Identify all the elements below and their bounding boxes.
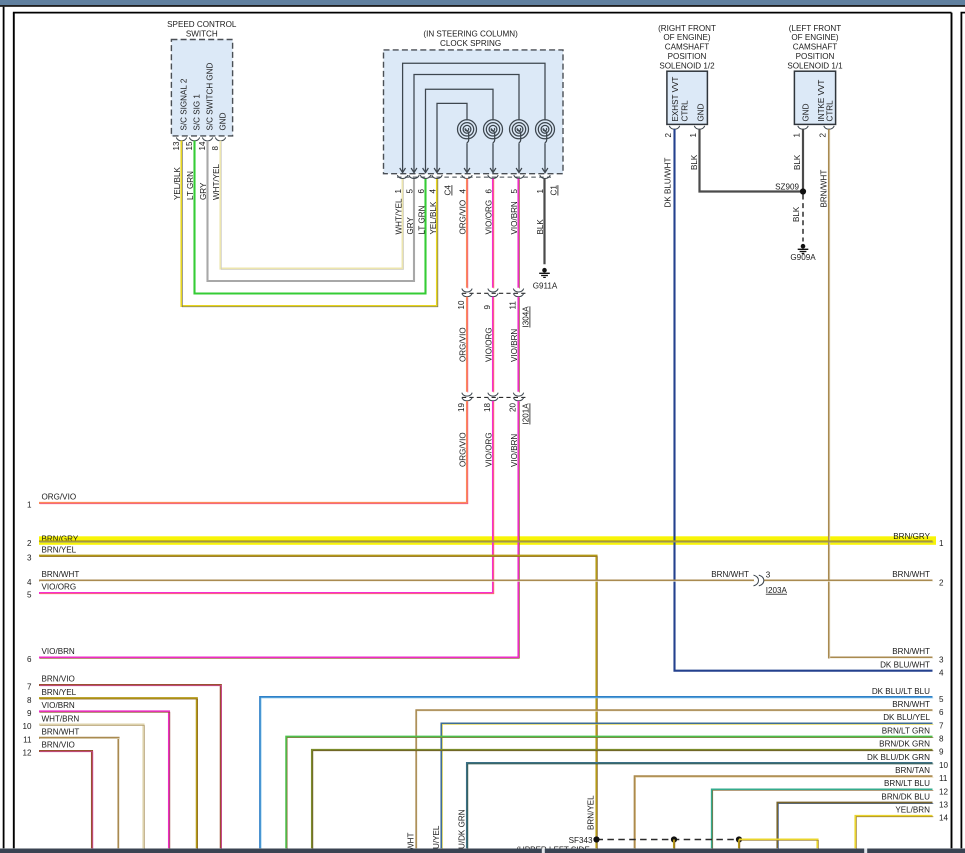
right row 13 number xyxy=(939,801,949,810)
svg-text:C1: C1 xyxy=(550,185,559,196)
switch pin connector cups xyxy=(176,137,225,140)
label BRN/GRY right end xyxy=(893,532,930,541)
right row 4 number xyxy=(939,669,944,678)
I304A pin 10 xyxy=(457,300,466,310)
left row 6 label VIO/BRN xyxy=(42,647,75,656)
svg-text:8: 8 xyxy=(211,146,220,151)
splice SF343 dashed bus xyxy=(597,839,740,841)
wire VIO/ORG mid segment xyxy=(492,297,495,393)
svg-text:BRN/WHT: BRN/WHT xyxy=(711,570,749,579)
clock spring pin arrows xyxy=(400,168,548,173)
svg-text:4: 4 xyxy=(939,669,944,678)
svg-text:6: 6 xyxy=(484,189,493,194)
label BRN/WHT before I203A xyxy=(711,570,749,579)
svg-text:7: 7 xyxy=(939,721,944,730)
label VIO/ORG mid xyxy=(485,327,494,362)
svg-text:I203A: I203A xyxy=(766,586,788,595)
speed control switch box xyxy=(171,40,232,136)
svg-text:CTRL: CTRL xyxy=(826,100,835,122)
switch pin label S/C SIG 1 xyxy=(193,94,202,131)
svg-text:WHT/YEL: WHT/YEL xyxy=(394,198,403,234)
right row 10 label DK BLU/DK GRN xyxy=(867,753,930,762)
solenoid 1/1 pin 2 xyxy=(819,133,828,138)
label YEL/BLK xyxy=(173,167,182,200)
wire right row 7 DK BLU/YEL xyxy=(442,724,934,850)
svg-text:YEL/BLK: YEL/BLK xyxy=(429,201,438,234)
wire DK BLU/WHT solenoid 1/2 to row 4 xyxy=(675,129,933,671)
svg-text:7: 7 xyxy=(27,683,32,692)
left outer frame line xyxy=(3,7,5,849)
right row 12 label BRN/LT BLU xyxy=(884,779,930,788)
wire right row 5 DK BLU/LT BLU xyxy=(260,697,933,849)
left row 6 number xyxy=(27,655,32,664)
svg-text:C4: C4 xyxy=(444,185,453,196)
wire right row 12 BRN/LT BLU xyxy=(712,790,933,850)
wire GRY switch pin14 to C4 pin5 xyxy=(208,141,415,281)
wire left row 7 to bottom xyxy=(39,685,222,849)
svg-text:2: 2 xyxy=(27,539,32,548)
svg-text:VIO/ORG: VIO/ORG xyxy=(485,200,494,235)
svg-text:10: 10 xyxy=(22,722,32,731)
right row 7 label DK BLU/YEL xyxy=(883,713,930,722)
label BLK solenoid 1/2 xyxy=(690,154,699,170)
wire right row 6 BRN/WHT xyxy=(416,710,933,849)
svg-text:OF ENGINE): OF ENGINE) xyxy=(663,33,711,42)
svg-text:2: 2 xyxy=(819,133,828,138)
wire left row 12 to bottom xyxy=(39,751,93,849)
svg-text:ORG/VIO: ORG/VIO xyxy=(459,327,468,362)
svg-text:SOLENOID 1/2: SOLENOID 1/2 xyxy=(659,61,715,70)
wire BRN/GRY row2 full width xyxy=(39,540,933,543)
svg-text:BRN/WHT: BRN/WHT xyxy=(42,728,80,737)
wire VIO/ORG C1 pin6 upper segment xyxy=(492,179,495,289)
solenoid 1/2 connector cups xyxy=(669,126,704,129)
svg-text:8: 8 xyxy=(939,735,944,744)
svg-text:4: 4 xyxy=(27,578,32,587)
right row 9 number xyxy=(939,748,944,757)
svg-text:S/C SIG 1: S/C SIG 1 xyxy=(193,94,202,131)
svg-text:WHT: WHT xyxy=(407,833,416,851)
wire VIO/BRN C1 pin5 upper segment xyxy=(517,179,520,289)
label BLK at G909A xyxy=(792,206,801,222)
left row 1 number xyxy=(27,501,32,510)
label VIO/BRN below C1 xyxy=(510,201,519,234)
label BRN/WHT solenoid 1/1 xyxy=(819,170,828,208)
svg-text:SOLENOID 1/1: SOLENOID 1/1 xyxy=(787,61,843,70)
left row 11 label BRN/WHT xyxy=(42,728,80,737)
svg-text:5: 5 xyxy=(939,695,944,704)
connector I304A label xyxy=(522,306,531,328)
label BRN/WHT right end row2 xyxy=(892,570,930,579)
right row 1 number xyxy=(939,539,944,548)
wire YEL/BLK switch pin13 to C4 pin4 xyxy=(182,141,438,307)
svg-text:1: 1 xyxy=(27,501,32,510)
I304A pin 9 xyxy=(483,305,492,310)
svg-text:DK BLU/WHT: DK BLU/WHT xyxy=(880,660,930,669)
svg-text:YEL/BRN: YEL/BRN xyxy=(895,806,930,815)
label GRY xyxy=(199,182,208,200)
svg-text:GRY: GRY xyxy=(199,182,208,200)
svg-text:BLK: BLK xyxy=(792,206,801,222)
label ORG/VIO below C1 xyxy=(459,200,468,235)
switch pin label S/C SIGNAL 2 xyxy=(180,78,189,130)
connector I203A symbols xyxy=(754,575,764,586)
left row 10 label WHT/BRN xyxy=(42,714,80,723)
left row 8 number xyxy=(27,696,32,705)
svg-text:G909A: G909A xyxy=(790,253,816,262)
left row 12 label BRN/VIO xyxy=(42,741,75,750)
switch pin label GND xyxy=(219,112,228,130)
switch pin 15 xyxy=(185,141,194,151)
right row 10 number xyxy=(939,761,949,770)
wire right row 11 BRN/TAN xyxy=(635,776,934,849)
C4 pin 4 xyxy=(428,189,437,194)
label VIO/BRN lower xyxy=(510,434,519,467)
right row 6 label BRN/WHT xyxy=(892,700,930,709)
svg-text:BRN/WHT: BRN/WHT xyxy=(819,170,828,208)
right row 11 label BRN/TAN xyxy=(895,766,930,775)
right row 8 number xyxy=(939,735,944,744)
left row 12 number xyxy=(22,749,32,758)
svg-text:LT GRN: LT GRN xyxy=(417,205,426,234)
svg-text:YEL/BLK: YEL/BLK xyxy=(173,167,182,200)
left row 2 label BRN/GRY xyxy=(42,534,79,543)
svg-text:OF ENGINE): OF ENGINE) xyxy=(791,33,839,42)
svg-text:VIO/BRN: VIO/BRN xyxy=(42,701,75,710)
svg-text:BRN/DK GRN: BRN/DK GRN xyxy=(879,740,930,749)
wire ORG/VIO C1 pin4 upper segment xyxy=(466,179,469,289)
svg-text:4: 4 xyxy=(428,189,437,194)
svg-text:5: 5 xyxy=(405,189,414,194)
label SF343 xyxy=(569,836,593,845)
right row 14 number xyxy=(939,814,949,823)
svg-text:9: 9 xyxy=(27,709,32,718)
left row 2 number xyxy=(27,539,32,548)
C1 pin 6 xyxy=(484,189,493,194)
solenoid 1/2 pin 2 xyxy=(664,133,673,138)
svg-text:BRN/YEL: BRN/YEL xyxy=(587,795,596,830)
clock spring coils xyxy=(458,120,555,173)
svg-text:VIO/BRN: VIO/BRN xyxy=(42,647,75,656)
svg-text:11: 11 xyxy=(939,774,948,783)
connector I201A symbols xyxy=(462,393,528,401)
right row 14 label YEL/BRN xyxy=(895,806,930,815)
C4 pin 5 xyxy=(405,189,414,194)
label WHT/YEL at C4 xyxy=(394,198,403,234)
right row 5 label DK BLU/LT BLU xyxy=(872,687,930,696)
label BRN/YEL vertical xyxy=(587,795,596,830)
svg-text:VIO/ORG: VIO/ORG xyxy=(485,327,494,362)
solenoid 1/1 header xyxy=(787,24,843,71)
label BLK solenoid 1/1 xyxy=(793,154,802,170)
right row 3 number xyxy=(939,655,944,664)
page top border line xyxy=(0,5,965,7)
label LT GRN xyxy=(186,171,195,200)
svg-text:6: 6 xyxy=(417,189,426,194)
svg-text:I304A: I304A xyxy=(522,306,531,328)
svg-text:VIO/ORG: VIO/ORG xyxy=(485,432,494,467)
svg-text:13: 13 xyxy=(939,801,949,810)
left row 9 label VIO/BRN xyxy=(42,701,75,710)
left row 7 label BRN/VIO xyxy=(42,675,75,684)
svg-text:15: 15 xyxy=(185,141,194,151)
svg-text:1: 1 xyxy=(939,539,944,548)
svg-text:BRN/DK BLU: BRN/DK BLU xyxy=(881,792,930,801)
svg-text:1: 1 xyxy=(689,133,698,138)
I203A pin 3 xyxy=(766,571,771,580)
svg-text:WHT/BRN: WHT/BRN xyxy=(42,714,80,723)
solenoid 1/1 pin 1 xyxy=(793,133,802,138)
svg-text:BRN/WHT: BRN/WHT xyxy=(892,647,930,656)
left row 8 label BRN/YEL xyxy=(42,688,77,697)
C1 pin 1 xyxy=(536,189,545,194)
wire left row 10 to bottom xyxy=(39,725,144,850)
svg-text:GND: GND xyxy=(802,103,811,121)
svg-text:11: 11 xyxy=(23,735,32,744)
svg-text:6: 6 xyxy=(27,655,32,664)
svg-text:BRN/WHT: BRN/WHT xyxy=(892,570,930,579)
svg-text:3: 3 xyxy=(27,553,32,562)
I201A pin 18 xyxy=(483,402,492,412)
wire VIO/BRN to row 6 xyxy=(39,401,519,658)
label WHT/YEL xyxy=(212,164,221,200)
svg-text:BRN/WHT: BRN/WHT xyxy=(42,570,80,579)
svg-text:VIO/BRN: VIO/BRN xyxy=(510,329,519,362)
label VIO/ORG lower xyxy=(485,432,494,467)
solenoid 1/2 pin 1 xyxy=(689,133,698,138)
solenoid 1/2 pin label GND xyxy=(697,103,706,121)
svg-text:BLK: BLK xyxy=(690,154,699,170)
right row 2 number xyxy=(939,578,944,587)
C4 pin 6 xyxy=(417,189,426,194)
left row 3 number xyxy=(27,553,32,562)
svg-text:(RIGHT FRONT: (RIGHT FRONT xyxy=(658,24,716,33)
switch pin 13 xyxy=(172,141,181,151)
splice SZ909 xyxy=(775,183,806,195)
clock spring connector cups xyxy=(397,175,551,178)
svg-text:POSITION: POSITION xyxy=(796,52,835,61)
svg-text:ORG/VIO: ORG/VIO xyxy=(459,432,468,467)
wire LT GRN switch pin15 to C4 pin6 xyxy=(195,141,426,294)
label LT GRN at C4 xyxy=(417,205,426,234)
svg-text:SF343: SF343 xyxy=(569,836,593,845)
svg-text:9: 9 xyxy=(939,748,944,757)
svg-text:11: 11 xyxy=(509,301,518,310)
wire VIO/ORG to row 5 xyxy=(39,401,494,594)
left row 4 number xyxy=(27,578,32,587)
diagram box top border xyxy=(13,12,952,14)
C1 pin 4 xyxy=(458,189,467,194)
right row 3 label BRN/WHT xyxy=(892,647,930,656)
svg-text:BRN/TAN: BRN/TAN xyxy=(895,766,930,775)
right row 6 number xyxy=(939,708,944,717)
bottom bar gap 2 xyxy=(542,849,545,853)
left row 11 number xyxy=(23,735,32,744)
svg-text:BRN/VIO: BRN/VIO xyxy=(42,741,75,750)
next page frame left border xyxy=(960,13,962,849)
wire BRN/YEL below splice dot2 xyxy=(673,840,676,850)
svg-text:CTRL: CTRL xyxy=(681,100,690,122)
right row 9 label BRN/DK GRN xyxy=(879,740,930,749)
svg-text:BRN/YEL: BRN/YEL xyxy=(42,545,77,554)
right row 5 number xyxy=(939,695,944,704)
right row 11 number xyxy=(939,774,948,783)
svg-text:SWITCH: SWITCH xyxy=(186,29,218,38)
solenoid 1/1 connector cups xyxy=(798,126,834,129)
svg-text:ORG/VIO: ORG/VIO xyxy=(42,493,77,502)
svg-text:GND: GND xyxy=(697,103,706,121)
svg-text:3: 3 xyxy=(766,571,771,580)
svg-text:3: 3 xyxy=(939,655,944,664)
svg-text:POSITION: POSITION xyxy=(668,52,707,61)
right row 8 label BRN/LT GRN xyxy=(882,726,930,735)
wire ORG/VIO to row 1 xyxy=(39,401,468,504)
camshaft position solenoid 1/1 box xyxy=(794,71,835,124)
splice SF343 dot 2 xyxy=(671,836,677,842)
highlight band BRN/GRY traced wire xyxy=(39,536,936,545)
svg-text:BRN/LT GRN: BRN/LT GRN xyxy=(882,726,930,735)
svg-text:CAMSHAFT: CAMSHAFT xyxy=(793,43,838,52)
svg-text:CAMSHAFT: CAMSHAFT xyxy=(665,43,710,52)
svg-text:4: 4 xyxy=(458,189,467,194)
connector I304A symbols xyxy=(462,289,528,297)
wire right row 14 YEL/BRN xyxy=(856,816,934,849)
svg-text:GRY: GRY xyxy=(406,217,415,235)
wire VIO/BRN mid segment xyxy=(517,297,520,393)
svg-text:ORG/VIO: ORG/VIO xyxy=(459,200,468,235)
right row 4 label DK BLU/WHT xyxy=(880,660,930,669)
svg-text:14: 14 xyxy=(939,814,949,823)
wire WHT/YEL switch pin8 to C4 pin1 xyxy=(221,141,404,270)
svg-text:U/YEL: U/YEL xyxy=(432,825,441,849)
right row 7 number xyxy=(939,721,944,730)
wire right row 10 DK BLU/DK GRN xyxy=(467,763,933,849)
label VIO/BRN mid xyxy=(510,329,519,362)
svg-text:8: 8 xyxy=(27,696,32,705)
wire BLK solenoid 1/1 to splice SZ909 xyxy=(802,129,804,191)
top window bar xyxy=(0,0,965,5)
label WHT bottom xyxy=(407,833,416,851)
wire right row 9 BRN/DK GRN xyxy=(312,750,933,849)
connector C4 label xyxy=(444,185,453,196)
svg-text:5: 5 xyxy=(27,591,32,600)
svg-text:BRN/WHT: BRN/WHT xyxy=(892,700,930,709)
splice SF343 dot 1 xyxy=(593,836,599,842)
next page frame top border xyxy=(961,12,965,14)
label DK BLU/WHT xyxy=(663,158,672,208)
svg-text:VIO/ORG: VIO/ORG xyxy=(42,583,77,592)
diagram box right border xyxy=(951,13,953,849)
ground G909A xyxy=(790,244,816,262)
svg-text:CLOCK SPRING: CLOCK SPRING xyxy=(440,39,501,48)
bottom bar gap xyxy=(864,849,867,853)
svg-text:20: 20 xyxy=(509,402,518,412)
solenoid 1/2 header xyxy=(658,24,716,71)
svg-text:GND: GND xyxy=(219,112,228,130)
wire BRN/WHT row4 right of I203A xyxy=(764,579,934,582)
svg-text:VIO/BRN: VIO/BRN xyxy=(510,434,519,467)
wire right row 8 BRN/LT GRN xyxy=(286,737,933,849)
svg-text:18: 18 xyxy=(483,402,492,412)
svg-text:14: 14 xyxy=(198,141,207,151)
svg-text:G911A: G911A xyxy=(533,282,558,291)
wire BRN/YEL below splice dot3 xyxy=(738,840,741,850)
clock spring internal wiring xyxy=(403,63,545,172)
wire left row 8 to bottom xyxy=(39,698,198,849)
wire YEL from splice to bottom xyxy=(739,840,818,850)
label ORG/VIO lower xyxy=(459,432,468,467)
wire BRN/WHT row4 left of I203A xyxy=(39,579,755,582)
speed control switch header xyxy=(167,20,237,38)
svg-text:9: 9 xyxy=(483,305,492,310)
svg-text:2: 2 xyxy=(664,133,673,138)
svg-text:U/DK GRN: U/DK GRN xyxy=(457,809,466,849)
left row 5 label VIO/ORG xyxy=(42,583,77,592)
connector I203A label xyxy=(766,586,788,595)
svg-text:VIO/BRN: VIO/BRN xyxy=(510,201,519,234)
svg-text:1: 1 xyxy=(394,189,403,194)
splice SF343 dot 3 xyxy=(736,836,742,842)
svg-text:19: 19 xyxy=(457,402,466,412)
svg-text:EXHST VVT: EXHST VVT xyxy=(671,77,680,122)
wire left row 9 to bottom xyxy=(39,711,170,849)
switch pin label S/C SWITCH GND xyxy=(206,62,215,130)
svg-text:SPEED CONTROL: SPEED CONTROL xyxy=(167,20,237,29)
I304A pin 11 xyxy=(509,301,518,310)
label U/YEL bottom xyxy=(432,825,441,849)
left row 4 label BRN/WHT xyxy=(42,570,80,579)
C1 pin 5 xyxy=(510,189,519,194)
connector I201A label xyxy=(522,403,531,425)
svg-text:DK BLU/YEL: DK BLU/YEL xyxy=(883,713,930,722)
switch pin 14 xyxy=(198,141,207,151)
wire BLK C1 pin1 to ground xyxy=(543,179,545,265)
wire BLK dashed to ground G909A xyxy=(802,195,804,242)
wire left row 11 to bottom xyxy=(39,738,119,849)
svg-text:LT GRN: LT GRN xyxy=(186,171,195,200)
wire ORG/VIO mid segment xyxy=(466,297,469,393)
I201A pin 19 xyxy=(457,402,466,412)
C4 pin 1 xyxy=(394,189,403,194)
right row 13 label BRN/DK BLU xyxy=(881,792,930,801)
clock spring box xyxy=(384,50,564,174)
solenoid 1/1 pin label GND xyxy=(802,103,811,121)
label YEL/BLK at C4 xyxy=(429,201,438,234)
solenoid 1/2 pin label EXHST VVT CTRL xyxy=(671,77,690,122)
svg-text:BRN/VIO: BRN/VIO xyxy=(42,675,75,684)
label ORG/VIO mid xyxy=(459,327,468,362)
wire BRN/WHT solenoid 1/1 to row 3 xyxy=(829,129,933,658)
label U/DK GRN bottom xyxy=(457,809,466,849)
svg-text:10: 10 xyxy=(457,300,466,310)
svg-text:DK BLU/DK GRN: DK BLU/DK GRN xyxy=(867,753,930,762)
svg-text:10: 10 xyxy=(939,761,949,770)
svg-text:S/C SIGNAL 2: S/C SIGNAL 2 xyxy=(180,78,189,130)
switch pin 8 xyxy=(211,146,220,151)
left row 10 number xyxy=(22,722,32,731)
label BLK below C1 xyxy=(536,219,545,235)
svg-text:12: 12 xyxy=(22,749,32,758)
svg-text:6: 6 xyxy=(939,708,944,717)
svg-text:BRN/GRY: BRN/GRY xyxy=(893,532,930,541)
label GRY at C4 xyxy=(406,217,415,235)
solenoid 1/1 pin label INTKE VVT CTRL xyxy=(817,80,835,122)
svg-text:DK BLU/LT BLU: DK BLU/LT BLU xyxy=(872,687,930,696)
wire right row 13 BRN/DK BLU xyxy=(778,803,934,849)
ground G911A xyxy=(533,268,558,291)
svg-text:13: 13 xyxy=(172,141,181,151)
wire BRN/YEL row3 to splice SF343 xyxy=(39,556,597,849)
